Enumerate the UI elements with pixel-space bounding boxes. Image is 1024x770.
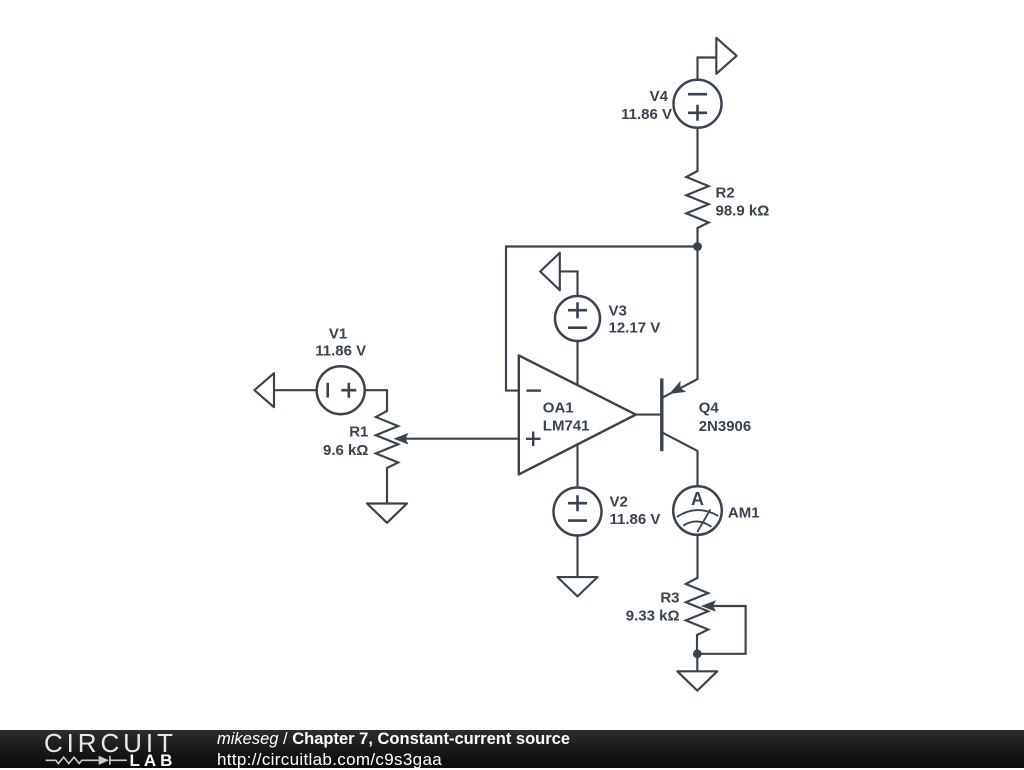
wire V3-opamp [576,341,578,386]
voltage source V4 [674,80,722,128]
svg-text:R3: R3 [660,590,679,607]
svg-text:98.9 kΩ: 98.9 kΩ [716,203,770,220]
wire wiper loop [700,606,746,654]
wire feedback [506,247,698,391]
svg-text:V3: V3 [609,302,627,319]
wire R1-gnd [386,468,388,504]
svg-text:11.86 V: 11.86 V [621,106,672,123]
ground (R3) [677,671,717,690]
CircuitLab logo [0,730,200,769]
wire R3-gnd node [696,635,698,654]
wire V1-R1 [365,390,387,411]
wire wiper-opamp+ [406,438,519,440]
svg-text:R1: R1 [349,424,368,441]
svg-text:V4: V4 [650,88,669,105]
svg-text:9.6 kΩ: 9.6 kΩ [323,442,368,459]
svg-text:11.86 V: 11.86 V [315,343,366,360]
R1 wiper arrow [394,433,409,445]
wire R2-collector node [696,228,698,379]
op-amp OA1 [519,355,636,474]
wire AM1-R3 [696,535,698,578]
wire V4-R2 [696,128,698,171]
node junction A [693,242,702,251]
svg-text:12.17 V: 12.17 V [609,320,661,337]
svg-text:Q4: Q4 [699,399,720,416]
R3 wiper arrow [701,600,716,612]
footer bar [0,730,1024,769]
node junction B [693,649,702,658]
svg-text:9.33 kΩ: 9.33 kΩ [626,608,680,625]
svg-text:11.86 V: 11.86 V [610,511,661,528]
transistor Q4 [662,378,698,451]
wire collector-AM1 [696,451,698,486]
svg-text:R2: R2 [716,185,735,202]
voltage source V3 [555,296,600,341]
svg-text:V2: V2 [610,494,628,511]
svg-text:LM741: LM741 [543,418,590,435]
ground (R1) [367,504,407,523]
svg-text:A: A [691,489,704,509]
voltage source V2 [554,488,602,536]
wire opamp out-base [636,414,662,416]
node flag (V3) [540,253,577,296]
voltage source V1 [317,366,365,414]
potentiometer R1 [376,411,398,468]
node flag (V4 top) [698,38,737,80]
ammeter AM1 [673,486,722,535]
ground (V2) [558,577,598,596]
resistor R2 [686,171,708,228]
potentiometer R3 [686,578,708,635]
svg-text:V1: V1 [329,325,347,342]
footer url [217,750,442,770]
footer title [217,730,570,749]
svg-text:LAB: LAB [130,750,177,768]
svg-text:OA1: OA1 [543,399,574,416]
svg-text:2N3906: 2N3906 [699,418,752,435]
wire V2-gnd [576,536,578,578]
node flag (V1) [254,373,316,407]
svg-text:AM1: AM1 [728,504,760,521]
wire opamp-V2 [576,444,578,488]
wire node-gnd [696,654,698,672]
